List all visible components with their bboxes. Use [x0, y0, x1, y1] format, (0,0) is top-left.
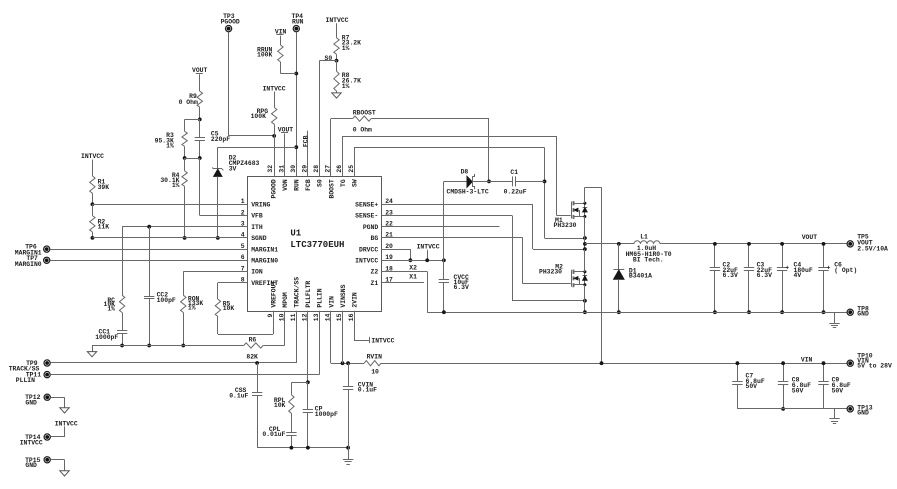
- node INTVCC tick junction: [425, 258, 429, 262]
- testpoint TP4: [292, 13, 304, 32]
- wire M1 source: [584, 217, 586, 250]
- wire INTVCC to D8: [444, 181, 467, 183]
- svg-text:0 Ohm: 0 Ohm: [353, 126, 372, 133]
- capacitor C9: [818, 363, 851, 409]
- wire INTVCC to R7: [336, 23, 338, 38]
- svg-text:50V: 50V: [832, 387, 844, 394]
- wire pin32 PGOOD: [274, 136, 276, 176]
- node bus-CC2 junction: [147, 344, 151, 348]
- svg-text:MPGM: MPGM: [282, 292, 289, 308]
- transistor M2 PH3230: [539, 263, 587, 287]
- net label VIN: [275, 29, 287, 36]
- wire R4 to SGND: [184, 186, 186, 238]
- node bus-RON junction: [181, 344, 185, 348]
- svg-text:FCB: FCB: [305, 179, 312, 191]
- node C9 top: [822, 361, 826, 365]
- node SW node top: [583, 236, 587, 240]
- node VFB-C5 junction: [198, 156, 202, 160]
- node INTVCC-CVCC junction: [442, 258, 446, 262]
- wire INTVCC to R1: [92, 160, 94, 176]
- testpoint TP8 GND: [847, 306, 869, 318]
- wire DRVCC: [382, 249, 411, 260]
- svg-text:Z2: Z2: [371, 269, 379, 276]
- testpoint TP12 GND: [25, 394, 50, 406]
- svg-text:PGOOD: PGOOD: [271, 179, 278, 198]
- wire MARGIN0: [50, 260, 248, 262]
- svg-text:INTVCC: INTVCC: [371, 338, 394, 345]
- svg-text:S0: S0: [317, 179, 324, 187]
- svg-text:MARGIN0: MARGIN0: [251, 258, 278, 265]
- capacitor C5: [195, 119, 231, 158]
- capacitor C4 (polarized): [777, 244, 813, 312]
- svg-text:PLLFLTR: PLLFLTR: [305, 281, 312, 308]
- wire gnd stub (VIN line): [834, 409, 836, 419]
- svg-text:82K: 82K: [246, 354, 258, 361]
- svg-text:RUN: RUN: [294, 179, 301, 191]
- wire TP15 to gnd: [50, 460, 64, 471]
- svg-text:0.01uF: 0.01uF: [262, 431, 285, 438]
- svg-text:ITH: ITH: [251, 224, 263, 231]
- wire RRUN bottom: [280, 62, 296, 74]
- node bus-CC1 junction: [120, 344, 124, 348]
- resistor R3: [155, 131, 188, 149]
- resistor RC: [103, 295, 124, 312]
- capacitor CSS: [229, 363, 262, 448]
- node C6 bottom: [822, 310, 826, 314]
- net label INTVCC (2VIN pin16): [354, 311, 395, 345]
- svg-text:2VIN: 2VIN: [351, 292, 358, 308]
- wire L1 to VOUT rail: [660, 243, 847, 245]
- testpoint TP15 GND: [25, 457, 50, 470]
- wire VINSNS pin15: [342, 311, 344, 363]
- wire INTVCC to RPG: [274, 92, 276, 108]
- wire SGND row: [92, 237, 247, 239]
- node PGOOD junction: [272, 134, 276, 138]
- wire R6 to MPGM pin10: [263, 311, 285, 346]
- svg-text:SGND: SGND: [251, 235, 267, 242]
- node S0 junction: [335, 59, 339, 63]
- svg-text:INTVCC: INTVCC: [417, 244, 440, 251]
- wire Z1 pin17 stub: [382, 282, 424, 284]
- node ITH-CC2 junction: [147, 225, 151, 229]
- node C4 top: [780, 242, 784, 246]
- svg-text:6.3V: 6.3V: [757, 272, 773, 279]
- wire INTVCC vertical to D8: [443, 181, 445, 279]
- wire PGND pin22: [382, 226, 500, 228]
- svg-text:0.1uF: 0.1uF: [229, 392, 248, 399]
- svg-text:SW: SW: [351, 179, 358, 187]
- node RUN-RRUN junction: [294, 72, 298, 76]
- svg-text:25: 25: [348, 165, 355, 173]
- svg-text:L1: L1: [640, 234, 648, 241]
- wire BOOST pin27: [331, 119, 353, 177]
- testpoint TP11 PLLIN: [16, 371, 50, 384]
- testpoint TP3: [221, 13, 240, 32]
- svg-text:0 Ohm: 0 Ohm: [179, 99, 198, 106]
- capacitor C6 (polarized, opt): [818, 244, 857, 312]
- node SGND-D2 junction: [216, 236, 220, 240]
- svg-text:30: 30: [290, 165, 297, 173]
- svg-text:1%: 1%: [342, 45, 350, 52]
- svg-text:2.5V/10A: 2.5V/10A: [857, 246, 888, 253]
- svg-text:X2: X2: [409, 264, 417, 271]
- node bus-CVIN junction: [346, 446, 350, 450]
- node SW-L1 junction: [583, 242, 587, 246]
- svg-text:220pF: 220pF: [211, 136, 230, 143]
- svg-text:VIN: VIN: [328, 296, 335, 308]
- svg-text:VON: VON: [282, 179, 289, 191]
- wire TG: [343, 136, 571, 216]
- resistor R8: [334, 71, 361, 91]
- node C6 top: [822, 242, 826, 246]
- node C3 bottom: [747, 310, 751, 314]
- wire SW to L1: [585, 243, 634, 245]
- zener diode D2 CMPZ4683: [212, 155, 259, 177]
- resistor RPL: [274, 395, 294, 414]
- wire M2 drain: [584, 249, 586, 272]
- svg-text:1000pF: 1000pF: [315, 411, 338, 418]
- wire C1 link to SW node: [545, 238, 585, 240]
- node DRVCC-INTVCC junction: [409, 258, 413, 262]
- wire RPG bottom: [274, 124, 276, 136]
- svg-text:4V: 4V: [794, 272, 802, 279]
- svg-text:BI Tech.: BI Tech.: [633, 256, 664, 263]
- net label X1: [409, 274, 417, 281]
- svg-text:VOUT: VOUT: [802, 234, 818, 241]
- svg-text:PH3230: PH3230: [539, 269, 562, 276]
- node CVIN junction: [346, 361, 350, 365]
- wire SGND bus: [92, 345, 244, 347]
- svg-text:INTVCC: INTVCC: [20, 440, 43, 447]
- capacitor CC2: [144, 227, 176, 346]
- ground (TP15): [60, 471, 69, 476]
- node C8 bottom: [781, 407, 785, 411]
- node M2 source-rail junction: [583, 310, 587, 314]
- node CVCC bottom junction: [442, 310, 446, 314]
- wire D2 anode to SGND: [217, 176, 219, 238]
- capacitor CPL: [262, 413, 296, 447]
- node VFB-R3 junction: [183, 156, 187, 160]
- svg-text:0.22uF: 0.22uF: [504, 188, 527, 195]
- svg-text:10K: 10K: [274, 402, 286, 409]
- svg-text:PLLIN: PLLIN: [16, 377, 35, 384]
- svg-text:INTVCC: INTVCC: [263, 85, 286, 92]
- svg-text:1%: 1%: [107, 305, 115, 312]
- wire RUN vertical: [296, 32, 298, 176]
- svg-text:1%: 1%: [342, 83, 350, 90]
- wire R5 to VREFOUT: [218, 311, 274, 335]
- ground (R8): [332, 93, 341, 98]
- wire R8 top: [336, 61, 338, 72]
- svg-text:TRACK/SS: TRACK/SS: [294, 277, 301, 308]
- node bus-CP junction: [306, 446, 310, 450]
- capacitor C8: [778, 363, 811, 409]
- svg-text:INTVCC: INTVCC: [326, 17, 349, 24]
- wire VIN line to rail: [381, 363, 847, 365]
- svg-text:GND: GND: [857, 409, 869, 416]
- svg-text:VIN: VIN: [801, 357, 813, 364]
- ground (VOUT rail): [829, 323, 839, 325]
- node C4 bottom: [780, 310, 784, 314]
- svg-text:SENSE+: SENSE+: [355, 202, 378, 209]
- wire M2 source to PGND rail: [584, 285, 586, 312]
- capacitor CP: [303, 382, 338, 447]
- wire SENSE-: [382, 216, 585, 301]
- svg-text:CMDSH-3-LTC: CMDSH-3-LTC: [447, 189, 489, 196]
- testpoint TP5 VOUT: [847, 233, 888, 252]
- capacitor CC1: [95, 313, 127, 346]
- wire TRACK/SS row: [50, 311, 296, 363]
- node C7 top: [736, 361, 740, 365]
- svg-text:+: +: [785, 264, 789, 271]
- svg-text:( Opt): ( Opt): [834, 267, 857, 274]
- ground (TP12): [60, 408, 69, 413]
- capacitor C2: [710, 244, 738, 312]
- testpoint TP14 INTVCC: [20, 434, 51, 447]
- svg-text:RBOOST: RBOOST: [353, 110, 376, 117]
- wire zener line: [218, 147, 297, 169]
- diode D8 CMDSH-3-LTC: [447, 169, 489, 196]
- svg-text:C1: C1: [510, 169, 518, 176]
- svg-text:6.3V: 6.3V: [723, 272, 739, 279]
- wire gnd stub (CVIN): [348, 448, 350, 460]
- node C8 top: [781, 361, 785, 365]
- resistor R1: [90, 176, 110, 193]
- svg-text:1%: 1%: [166, 143, 174, 150]
- ground (SGND bus): [87, 352, 96, 357]
- svg-text:GND: GND: [25, 400, 37, 407]
- wire SW pin25: [354, 148, 545, 239]
- svg-text:PGND: PGND: [363, 224, 379, 231]
- svg-text:RVIN: RVIN: [367, 353, 383, 360]
- node C2 top: [713, 242, 717, 246]
- testpoint TP9 TRACK/SS: [9, 360, 51, 373]
- svg-text:50V: 50V: [792, 387, 804, 394]
- resistor R2: [90, 216, 110, 232]
- wire M1 drain to VIN: [585, 187, 602, 363]
- svg-text:LTC3770EUH: LTC3770EUH: [290, 240, 344, 250]
- svg-text:TG: TG: [340, 179, 347, 187]
- svg-text:VFB: VFB: [251, 213, 263, 220]
- svg-text:50V: 50V: [746, 383, 758, 390]
- resistor R5: [215, 299, 234, 316]
- svg-text:+: +: [827, 264, 831, 271]
- svg-text:VRING: VRING: [251, 202, 270, 209]
- svg-text:PGOOD: PGOOD: [221, 18, 240, 25]
- node PLLFLTR junction: [306, 380, 310, 384]
- node SW-C1 junction: [543, 180, 547, 184]
- resistor R4: [160, 158, 187, 189]
- testpoint TP7 MARGIN0: [15, 255, 50, 268]
- wire VIN to RRUN: [280, 36, 282, 45]
- svg-text:INTVCC: INTVCC: [55, 421, 78, 428]
- net label FCB: [302, 131, 309, 177]
- svg-text:DRVCC: DRVCC: [359, 246, 378, 253]
- wire PGND rail: [427, 312, 847, 314]
- svg-text:PLLIN: PLLIN: [317, 288, 324, 307]
- inductor L1: [626, 234, 672, 264]
- wire ITH row: [122, 227, 247, 296]
- node RUN-zener junction: [294, 145, 298, 149]
- svg-text:RUN: RUN: [292, 18, 304, 25]
- wire VFB node: [185, 158, 248, 216]
- svg-text:1%: 1%: [188, 304, 196, 311]
- svg-text:BG: BG: [371, 235, 379, 242]
- svg-text:MARGIN1: MARGIN1: [251, 246, 278, 253]
- node C3 top: [747, 242, 751, 246]
- IC U1 LTC3770EUH: [241, 165, 393, 322]
- svg-text:INTVCC: INTVCC: [81, 153, 104, 160]
- svg-text:ION: ION: [251, 269, 263, 276]
- wire VRING row: [92, 204, 247, 206]
- svg-text:B3401A: B3401A: [629, 273, 652, 280]
- svg-text:100K: 100K: [251, 113, 267, 120]
- svg-text:BOOST: BOOST: [328, 179, 335, 198]
- svg-text:PH3230: PH3230: [554, 222, 577, 229]
- wire R3 bottom: [184, 146, 186, 158]
- svg-text:11K: 11K: [98, 223, 110, 230]
- svg-text:9: 9: [267, 313, 274, 317]
- svg-text:32: 32: [267, 165, 274, 173]
- wire BG: [382, 238, 571, 284]
- wire PLLFLTR vertical: [307, 311, 309, 383]
- resistor RON: [181, 295, 204, 312]
- net label VOUT (top left): [192, 67, 208, 74]
- wire RON bottom: [183, 313, 185, 346]
- wire VIN pin14: [331, 311, 365, 364]
- transistor M1 PH3230: [554, 201, 588, 229]
- wire VIN gnd line: [737, 408, 847, 410]
- svg-text:0.1uF: 0.1uF: [358, 387, 377, 394]
- capacitor CVCC: [439, 274, 469, 312]
- wire D8 to C1: [472, 181, 512, 183]
- node VIN rail junction: [600, 361, 604, 365]
- node boost-D8-C1 junction: [487, 180, 491, 184]
- svg-text:GND: GND: [857, 311, 869, 318]
- wire R2 top: [92, 204, 94, 215]
- wire MARGIN1: [50, 249, 248, 251]
- capacitor C3: [744, 244, 772, 312]
- svg-text:11: 11: [290, 313, 297, 321]
- wire RBOOST to boost node: [371, 119, 489, 182]
- net label INTVCC (pin19): [417, 244, 440, 261]
- capacitor CVIN: [343, 363, 377, 448]
- wire R2 bottom: [92, 232, 94, 238]
- svg-text:R6: R6: [249, 337, 257, 344]
- node VRING junction: [91, 202, 95, 206]
- node SENSE- junction: [583, 299, 587, 303]
- wire Z2 pin18: [382, 272, 428, 313]
- wire node to R3: [185, 119, 200, 131]
- svg-text:16: 16: [348, 313, 355, 321]
- svg-text:20: 20: [385, 243, 393, 250]
- net label VOUT (pin31 VON): [278, 126, 294, 176]
- svg-text:MARGIN0: MARGIN0: [15, 261, 42, 268]
- svg-text:10: 10: [371, 368, 379, 375]
- svg-text:INTVCC: INTVCC: [355, 258, 378, 265]
- net label X2: [409, 264, 417, 271]
- wire PLLIN row: [50, 311, 319, 375]
- wire R1 bottom: [92, 193, 94, 204]
- wire VOUT to R9: [199, 74, 201, 91]
- svg-text:U1: U1: [290, 228, 301, 238]
- resistor R9: [179, 91, 203, 107]
- node bus-CPL junction: [290, 446, 294, 450]
- resistor R6: [244, 337, 263, 361]
- ground (VIN line): [829, 418, 839, 420]
- wire ION row: [183, 272, 247, 296]
- wire R7 bottom: [336, 54, 338, 60]
- svg-text:6.3V: 6.3V: [454, 284, 470, 291]
- svg-text:D8: D8: [461, 169, 469, 176]
- diode D1 B3401A: [613, 244, 652, 312]
- svg-text:GND: GND: [25, 462, 37, 469]
- node R9/R3/C5 junction: [198, 118, 202, 122]
- wire TP12 to gnd: [50, 397, 64, 408]
- node C2 bottom: [713, 310, 717, 314]
- svg-text:100K: 100K: [257, 52, 273, 59]
- resistor R7: [334, 34, 361, 54]
- wire PLLFLTR to RPL: [291, 382, 308, 394]
- svg-text:X1: X1: [409, 274, 417, 281]
- svg-text:1%: 1%: [172, 182, 180, 189]
- svg-text:100pF: 100pF: [157, 297, 176, 304]
- wire gnd stub (VOUT rail): [834, 312, 836, 323]
- capacitor C1: [504, 169, 545, 196]
- svg-text:SENSE-: SENSE-: [355, 213, 378, 220]
- wire VREFINT row: [218, 283, 248, 300]
- svg-text:10K: 10K: [223, 305, 235, 312]
- wire R8 to ground: [336, 91, 338, 93]
- wire TP3 PGOOD: [229, 32, 275, 136]
- testpoint TP6 MARGIN1: [15, 243, 50, 256]
- capacitor C7: [732, 363, 765, 409]
- node SGND-R4 junction: [183, 236, 187, 240]
- resistor RPG: [251, 107, 277, 124]
- svg-text:VREFOUT: VREFOUT: [271, 281, 278, 308]
- resistor RBOOST: [353, 110, 376, 134]
- svg-text:1000pF: 1000pF: [95, 334, 118, 341]
- wire S0 to pin28: [319, 61, 336, 177]
- node D1-rail junction: [617, 310, 621, 314]
- wire SENSE+: [382, 204, 585, 249]
- svg-text:Z1: Z1: [371, 280, 379, 287]
- resistor RVIN: [364, 353, 382, 375]
- node SENSE+ junction: [583, 247, 587, 251]
- svg-text:5V to 28V: 5V to 28V: [857, 363, 892, 370]
- svg-text:VINSNS: VINSNS: [340, 284, 347, 307]
- node D1 junction: [617, 242, 621, 246]
- resistor RRUN: [257, 45, 283, 62]
- wire INTVCC row pin19: [382, 260, 444, 262]
- node SGND-R2 junction: [91, 236, 95, 240]
- svg-text:3V: 3V: [229, 165, 237, 172]
- testpoint TP10 VIN: [847, 353, 892, 370]
- testpoint TP13 GND: [847, 404, 873, 416]
- svg-text:5: 5: [241, 243, 245, 250]
- node VINSNS junction: [341, 361, 345, 365]
- wire TP14 to label: [50, 426, 64, 437]
- wire bottom gnd bus: [257, 447, 348, 449]
- ground (CVIN bus): [343, 459, 353, 461]
- svg-text:FCB: FCB: [302, 135, 309, 147]
- node CSS junction: [255, 361, 259, 365]
- wire bus gnd stub: [92, 346, 94, 352]
- wire R9 bottom: [199, 107, 201, 119]
- svg-text:39K: 39K: [98, 184, 110, 191]
